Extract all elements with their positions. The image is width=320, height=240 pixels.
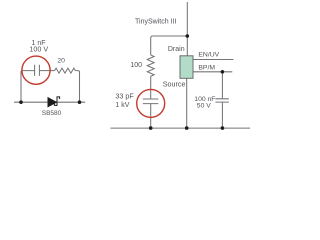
svg-text:100: 100: [130, 62, 142, 69]
svg-text:TinySwitch III: TinySwitch III: [135, 18, 176, 25]
svg-text:EN/UV: EN/UV: [198, 52, 219, 59]
svg-text:100 V: 100 V: [29, 45, 48, 54]
svg-text:BP/M: BP/M: [198, 64, 215, 71]
svg-text:50 V: 50 V: [197, 103, 211, 110]
svg-text:20: 20: [57, 57, 65, 64]
svg-text:SB580: SB580: [42, 110, 62, 117]
svg-text:1 kV: 1 kV: [115, 102, 129, 109]
svg-text:Source: Source: [163, 80, 186, 89]
svg-text:Drain: Drain: [168, 46, 185, 53]
svg-text:33 pF: 33 pF: [115, 91, 134, 100]
